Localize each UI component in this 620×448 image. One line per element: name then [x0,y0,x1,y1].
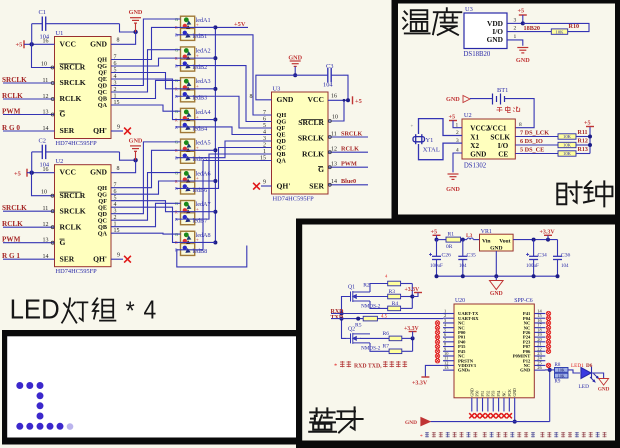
svg-text:C1: C1 [39,9,46,16]
wire U2 QC to module [111,173,181,221]
no-connect X bottom [480,413,485,418]
svg-text:P30: P30 [476,390,480,396]
pin stub right 19 [534,336,545,338]
svg-text:*: * [126,297,135,325]
svg-text:I/O: I/O [498,142,509,150]
power port +3.3V (U20) [421,376,429,378]
wire C1 to GND net [120,24,136,32]
svg-text:100uF: 100uF [430,264,443,269]
svg-text:R11: R11 [578,130,588,136]
ground (DS18B20) [517,48,528,53]
no-connect X bottom [507,413,512,418]
svg-text:7: 7 [114,183,117,189]
svg-text:+5: +5 [518,8,525,15]
svg-text:1: 1 [114,93,117,99]
pin stub bottom 28 [476,398,478,412]
IC U3 HD74HC595FP shift register [272,92,329,194]
no-connect X U1 pin9 [124,128,131,135]
wire DS18B20 I/O to R10 [507,31,551,33]
no-connect pin 9 [435,349,439,353]
wire U1 QH' stub [111,130,123,132]
wire TXD to UART-RX [377,318,443,320]
LED module ledA8 / ledB8 [175,231,195,255]
wire R3 right [401,296,413,298]
svg-text:14: 14 [43,126,49,132]
wire battery to DS1302 VCC1 [505,99,535,128]
wire U3 QD to blue LED 5 [176,141,272,158]
svg-text:SRCLK: SRCLK [2,76,27,84]
wire U2 QD to module [111,142,181,214]
wire Vout rail [513,239,557,241]
wire TXD segment [331,318,363,320]
wire gnd up to pin 26 [549,370,551,422]
wire X2 loop [419,143,463,160]
svg-text:9: 9 [263,180,266,186]
wire L3 to Vin [473,239,479,241]
ground (DS1302) [448,174,459,179]
svg-text:R5: R5 [355,323,362,329]
pin stub bottom 34 [508,398,510,412]
svg-text:10: 10 [41,62,47,68]
svg-text:RCLK: RCLK [60,222,82,231]
wire R7 right [402,350,413,352]
svg-text:7: 7 [263,110,266,116]
svg-text:12: 12 [43,222,49,228]
resistor R12 10K [558,142,576,147]
svg-text:+5: +5 [14,171,21,178]
capacitor C1 100nF [32,17,120,31]
wire +5V vertical trunk [214,27,216,242]
wire U3 input PWM [328,166,368,168]
svg-text:+5: +5 [355,98,362,105]
resistor R5 [363,316,377,321]
svg-text:10K: 10K [558,373,565,378]
svg-text:15: 15 [114,100,120,106]
no-connect pin 25 [546,363,550,367]
no-connect X bottom [501,413,506,418]
svg-text:C26: C26 [442,252,452,258]
no-connect pin 6 [435,335,439,339]
svg-text:11: 11 [43,78,49,84]
wire input R G 0 [3,130,55,132]
resistor R7 [389,349,402,354]
wire RXD to UART-TX [331,313,443,315]
junction gnd wire [513,420,517,424]
svg-text:7 DS_LCK: 7 DS_LCK [520,130,549,137]
junction +3.3V [546,238,550,242]
svg-text:SER: SER [60,126,75,135]
wire pin26 to R8 [545,369,555,371]
svg-text:11: 11 [331,131,337,137]
resistor R1 0R [446,237,461,242]
svg-text:LED: LED [579,384,590,390]
LED module ledA4 / ledB4 [175,108,195,132]
svg-text:R G 1: R G 1 [2,252,20,260]
no-connect pin 15 [546,316,550,320]
pin stub left 10 [443,355,454,357]
svg-text:PWM: PWM [341,161,357,168]
pin stub left 1 [443,313,454,315]
svg-text:3: 3 [114,209,117,215]
wire R7 to Q2 source [370,343,389,351]
svg-text:3: 3 [263,136,266,142]
wire GND to U1 pin8 [111,32,136,44]
capacitor C36 104 [553,240,562,277]
wire input R G 1 [3,258,55,260]
svg-text:RCLK: RCLK [60,94,82,103]
svg-text:*: * [420,434,423,440]
no-connect pin 5 [435,330,439,334]
svg-text:GND: GND [520,368,531,373]
IC U1 HD74HC595FP shift register [55,37,112,139]
svg-text:R10: R10 [569,23,580,30]
svg-text:Y1: Y1 [426,137,434,144]
panel border: bluetooth box [296,219,620,448]
svg-text:RCLK: RCLK [302,150,324,159]
junction gnd rail [532,274,536,278]
LED module ledA5 / ledB5 [175,139,195,163]
svg-text:2: 2 [456,130,459,136]
wire U1 SRCLR to +5 [32,44,55,67]
svg-text:GND: GND [598,387,610,393]
svg-text:+5: +5 [431,228,438,235]
wire DS1302 DS_LCK [515,136,558,138]
power port +5 (pullups) [586,126,594,128]
panel: digit 1 display, white background [2,330,300,444]
no-connect X U3 pin9 [253,183,260,190]
junction +5V trunk module 7 [213,210,217,214]
ground [290,61,301,66]
wire Q1 gate to RXD [342,297,347,314]
wire +5 down [522,15,524,23]
wire U3 QH' stub [261,185,272,187]
wire C3 to +5 [343,75,348,100]
wire U2 QA to module [111,232,181,235]
svg-text:18B20: 18B20 [524,25,541,32]
wire U2 QH to module [111,150,215,187]
svg-text:C34: C34 [538,252,548,258]
svg-text:P31: P31 [481,390,485,396]
svg-text:R6: R6 [383,331,390,337]
svg-text:NC: NC [502,391,506,397]
svg-text:R3: R3 [389,289,396,295]
wire input SRCLK [3,210,55,212]
svg-text:SPP-C6: SPP-C6 [514,298,532,304]
wire U1 QG to module [111,58,215,66]
wire VDD3V3 to +3.3V [425,365,443,377]
svg-text:9: 9 [117,253,120,259]
wire R8 to LED [568,370,580,373]
svg-text:5 DS_CE: 5 DS_CE [520,147,544,154]
no-connect X bottom [469,413,474,418]
pin stub bottom 32 [498,398,500,412]
svg-text:QH': QH' [93,254,107,263]
svg-text:R9: R9 [555,379,561,384]
svg-text:HD74HC595FP: HD74HC595FP [273,196,315,203]
wire R13 to +5 [576,153,590,155]
svg-text:SRCLK: SRCLK [60,206,86,215]
junction C34 [532,238,536,242]
svg-text:P34: P34 [497,390,501,396]
wire VR1 GND down [495,251,497,276]
wire U1 QA to module [111,105,181,111]
no-connect pin 4 [435,325,439,329]
no-connect pin 18 [546,330,550,334]
LED module ledA2 / ledB2 [175,47,195,71]
capacitor C2 100nF [32,145,120,159]
svg-text:1: 1 [114,222,117,228]
junction gnd rail [435,274,439,278]
capacitor C34 100uF [526,240,538,277]
wire U1 QD to module [111,19,181,86]
LED module ledA7 / ledB7 [175,201,195,225]
svg-text:GND: GND [470,150,486,158]
svg-text:GND: GND [90,168,107,177]
no-connect pin 3 [435,321,439,325]
IC U2 HD74HC595FP shift register [55,165,112,267]
svg-text:SRCLK: SRCLK [60,78,86,87]
wire U2 QH' stub [111,258,123,260]
wire U2 SRCLR to +5 [32,173,55,196]
svg-text:16: 16 [43,38,49,44]
svg-text:GND: GND [516,57,530,64]
wire input PWM [3,242,55,244]
pin stub right 25 [534,364,545,366]
LED module ledA1 / ledB1 [175,16,195,40]
svg-text:2: 2 [514,26,517,32]
capacitor C26 100uF [429,240,441,277]
svg-text:R12: R12 [578,138,588,144]
dot matrix digit 1 [16,382,73,430]
resistor R4 [388,306,401,311]
junction R3/+3.3V [410,295,414,299]
svg-text:BT1: BT1 [497,87,508,94]
svg-text:QH': QH' [93,126,107,135]
wire U2 QE to module [111,207,215,242]
panel border: temperature/clock box [392,0,620,220]
svg-text:RXD TXD,: RXD TXD, [354,363,382,369]
pin stub bottom 31 [492,398,494,412]
wire U3 QF to blue LED 3 [176,96,272,128]
svg-text:L3: L3 [466,233,473,239]
no-connect pin 21 [546,344,550,348]
svg-text:5: 5 [114,67,117,73]
wire +3.3V stub [412,293,418,297]
junction R11 [588,135,592,139]
svg-text:16: 16 [43,167,49,173]
junction +5V trunk module 1 [213,25,217,29]
svg-text:U3: U3 [465,6,473,13]
wire DS1302 DS_IO [515,144,558,146]
svg-text:SER: SER [309,182,324,191]
wire +5 loop to R10 [523,23,589,31]
wire gnd to battery [470,98,493,100]
no-connect X bottom [485,413,490,418]
svg-text:4: 4 [456,148,459,154]
svg-text:TXD: TXD [331,315,344,321]
junction +5/C1 [30,42,34,46]
ground (U1 decoupling) [130,18,141,23]
LED D6 [581,367,599,383]
wire +5 to U2 VCC [27,172,55,174]
svg-text:GND: GND [288,55,302,62]
junction +5V trunk module 5 [213,148,217,152]
wire U2 QG to module [111,181,215,194]
svg-text:GNDs: GNDs [458,368,470,373]
svg-text:R2: R2 [363,282,370,288]
junction +5V trunk module 8 [213,240,217,244]
svg-text:10K: 10K [563,143,572,148]
svg-text:5: 5 [263,123,266,129]
svg-text:R4: R4 [392,301,399,307]
wire +5 to VCC2 [453,121,462,128]
junction R6/+3.3V [411,336,415,340]
svg-text:6: 6 [263,116,266,122]
svg-text:SCLK: SCLK [490,134,510,142]
label battery (dry cell) [497,106,520,112]
junction C1/GND [133,30,137,34]
pin stub bottom 33 [503,398,505,412]
svg-text:+5: +5 [16,42,23,49]
junction C2/GND [133,158,137,162]
svg-text:VCC: VCC [308,95,324,104]
svg-text:0R: 0R [446,244,453,250]
no-connect pin 11 [435,359,439,363]
pin stub bottom 35 [514,398,516,412]
junction Q1 gate [340,312,344,316]
svg-text:9: 9 [117,125,120,131]
wire R4 right [401,307,413,309]
pin stub left 5 [443,331,454,333]
wire bottom pin to gnd [514,412,516,422]
svg-text:+3.3V: +3.3V [405,287,421,293]
wire U3 QE to blue LED 4 [176,127,272,135]
wire U1 QF to module [111,73,215,89]
resistor R6 [389,336,402,341]
wire Q1 to R3 [360,296,388,298]
wire R12 to +5 [576,144,590,146]
junction gnd rail [556,274,560,278]
svg-text:4: 4 [144,296,157,325]
power port +5 (U3) [352,96,354,104]
svg-text:10: 10 [41,190,47,196]
wire U3 input SRCLK [328,136,368,138]
svg-text:R G 0: R G 0 [2,124,20,132]
svg-text:104: 104 [323,82,333,89]
IC U2 DS1302 RTC [462,119,515,159]
svg-text:8: 8 [117,38,120,44]
svg-text:R13: R13 [578,147,588,153]
ground arrow (LED) [599,379,609,386]
svg-text:4: 4 [114,74,117,80]
svg-text:VCC1: VCC1 [487,125,507,133]
wire C1 left lead [31,24,33,45]
svg-text:C3: C3 [326,63,333,70]
svg-text:1: 1 [514,34,517,40]
svg-text:10K: 10K [556,29,565,34]
svg-text:4.5: 4.5 [381,315,388,320]
pin stub left 13 [443,369,454,371]
no-connect X bottom [475,413,480,418]
wire U2 QB to module [111,203,181,226]
pin stub right 24 [534,360,545,362]
svg-text:8: 8 [519,122,522,128]
wire LED cathode to gnd [592,373,604,379]
svg-text:8: 8 [250,94,253,100]
pin stub left 8 [443,346,454,348]
svg-text:X1: X1 [470,134,479,142]
svg-text:5: 5 [114,196,117,202]
svg-text:13: 13 [43,109,49,115]
svg-text:+5: +5 [584,120,591,127]
no-connect pin 10 [435,354,439,358]
svg-text:U2: U2 [56,158,64,165]
svg-text:RCLK: RCLK [341,146,359,153]
wire input RCLK [3,98,55,100]
svg-text:3: 3 [456,138,459,144]
wire input PWM [3,114,55,116]
pin stub bottom 30 [487,398,489,412]
wire +3.3V stub [547,235,549,239]
wire gnd run [430,421,549,423]
svg-text:+3.3V: +3.3V [412,381,428,387]
no-connect pin 16 [546,321,550,325]
pin stub right 26 [534,369,545,371]
inductor L3 [467,238,473,240]
wire U1 QE to module [111,79,215,120]
title: wen-du (temperature) [403,8,461,35]
junction Q2 gate [340,317,344,321]
wire GND to U3 pin8 [256,75,295,100]
svg-text:PWM: PWM [2,107,21,115]
junction +5V trunk module 4 [213,118,217,122]
svg-text:GND: GND [129,138,143,145]
transistor Q1 NMOS [346,291,370,302]
svg-text:GND: GND [513,388,517,396]
pin stub left 12 [443,364,454,366]
svg-text:Vout: Vout [499,238,510,244]
svg-text:U1: U1 [56,30,64,37]
svg-text:U3: U3 [273,86,281,93]
svg-text:6: 6 [114,61,117,67]
pin stub left 4 [443,327,454,329]
pin stub right 16 [534,322,545,324]
resistor R13 10K [558,151,576,156]
no-connect X bottom [496,413,501,418]
panel border: digit display box [2,330,300,445]
junction VDD/+5 [521,21,525,25]
junction C35 [461,238,465,242]
junction pin26 [548,368,552,372]
wire C2 to GND net [120,152,136,160]
wire DS1302 GND [453,153,462,172]
IC U3 DS18B20 temperature sensor [464,13,507,49]
svg-text:15: 15 [260,155,266,161]
svg-text:R1: R1 [448,232,455,238]
wire Q2 to R6 [360,337,389,339]
svg-text:6: 6 [114,189,117,195]
svg-text:12: 12 [43,94,49,100]
pin stub left 9 [443,350,454,352]
ground (U2 decoupling) [130,146,141,151]
resistor R3 [388,294,401,299]
junction +5V trunk module 3 [213,87,217,91]
junction VR1 gnd [494,274,498,278]
junction +5V trunk module 2 [213,56,217,60]
wire +3.3V tie Q1 [411,284,413,309]
svg-text:GND: GND [470,388,474,396]
svg-text:GND: GND [405,420,417,426]
